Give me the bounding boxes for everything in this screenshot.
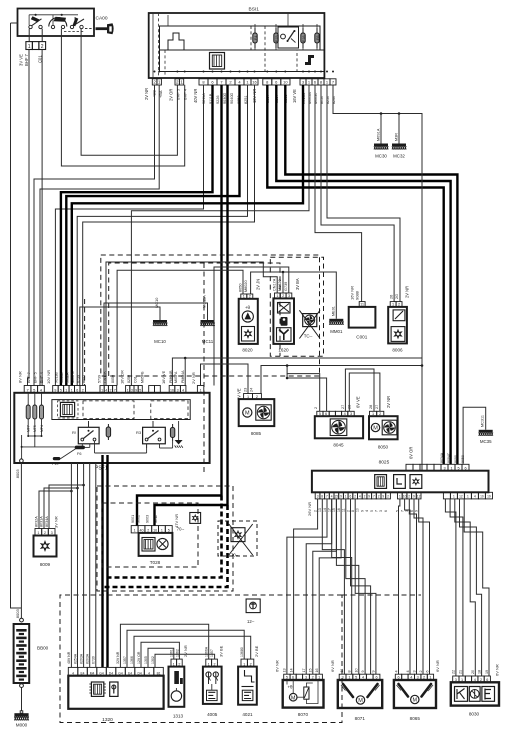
svg-text:8032A: 8032A	[34, 516, 38, 527]
svg-text:4: 4	[474, 495, 476, 499]
svg-text:M: M	[413, 698, 418, 704]
wire BB00 to M000	[21, 688, 23, 711]
component 8071 pins	[339, 674, 380, 680]
component C001	[349, 307, 376, 340]
dashed boundary left segment	[84, 299, 86, 385]
svg-text:F6: F6	[77, 452, 81, 456]
connector C01	[26, 42, 46, 51]
bold wire pair B down middle	[226, 85, 228, 505]
ground MC32	[392, 144, 406, 159]
component 8065 wiper motor rear	[394, 680, 436, 721]
BSI connector pins group4	[263, 79, 290, 85]
ground MM01	[329, 306, 343, 334]
svg-text:2: 2	[378, 495, 380, 499]
svg-text:1: 1	[200, 389, 202, 393]
svg-text:8090: 8090	[454, 455, 458, 463]
component 8085 fan unit	[239, 399, 275, 436]
PSF1 fuse box	[14, 393, 209, 472]
svg-text:1366: 1366	[130, 656, 134, 664]
svg-text:1: 1	[399, 495, 401, 499]
4005 labels	[205, 645, 224, 657]
svg-text:2V NR: 2V NR	[144, 88, 149, 100]
ground MC30	[374, 144, 388, 159]
wire BSI to 8006 pin1	[321, 85, 394, 302]
svg-text:5: 5	[396, 510, 400, 512]
wires 8009 to 1320 bus	[39, 491, 71, 529]
svg-text:19: 19	[487, 495, 491, 499]
T028 pins	[131, 526, 172, 533]
svg-text:17: 17	[302, 668, 306, 672]
svg-text:8045: 8045	[333, 443, 344, 448]
wires 1320 to 1313/4005/4021	[120, 624, 208, 667]
dashed boundary D2	[109, 263, 280, 376]
svg-text:10V NR: 10V NR	[46, 370, 51, 384]
component 8006 sensor	[388, 307, 407, 352]
svg-text:F4: F4	[254, 36, 258, 40]
svg-text:27: 27	[375, 405, 379, 409]
svg-text:2: 2	[41, 44, 44, 50]
svg-text:5: 5	[60, 389, 62, 393]
crossed component 70 small	[177, 513, 201, 532]
PSF1 fuse F6	[75, 446, 85, 457]
8025 top pin labels	[440, 452, 465, 463]
BSI connector strip	[160, 50, 325, 72]
svg-text:15: 15	[309, 668, 313, 672]
BSI pin junction dots	[154, 71, 335, 73]
C001 wire labels	[349, 286, 359, 300]
wires 1620 to PSF1	[106, 262, 277, 386]
svg-text:2: 2	[387, 495, 389, 499]
dashed boundary bottom assembly	[60, 595, 342, 723]
wire 6V OR down to 8025	[421, 358, 423, 471]
svg-text:8031A: 8031A	[40, 516, 44, 527]
PSF1 fuse bus	[27, 435, 42, 447]
svg-text:2: 2	[82, 389, 84, 393]
svg-text:20: 20	[471, 670, 475, 674]
wire PSF1 to 8020 pin1	[117, 270, 243, 385]
BSI fuse F15	[274, 28, 279, 48]
svg-text:3V BA: 3V BA	[295, 278, 300, 290]
svg-text:8: 8	[348, 670, 352, 672]
wire switch to BSI BHF5	[81, 29, 177, 156]
svg-text:16: 16	[337, 508, 341, 512]
svg-text:9001: 9001	[131, 515, 135, 523]
svg-text:6: 6	[410, 510, 414, 512]
wires 8025 to 8071	[322, 499, 344, 674]
wire MC10 to PSF1	[80, 307, 160, 386]
svg-text:48V NR: 48V NR	[67, 651, 71, 664]
svg-text:23: 23	[244, 388, 248, 392]
svg-text:6V NR: 6V NR	[330, 660, 335, 672]
wires 8045-8050 link	[345, 369, 374, 411]
svg-text:4: 4	[182, 389, 184, 393]
PSF1 fuse mid	[107, 424, 109, 440]
svg-text:9: 9	[135, 389, 137, 393]
svg-text:1: 1	[28, 44, 31, 50]
svg-text:9: 9	[360, 510, 364, 512]
wires 8025 to 8070	[294, 499, 318, 674]
dashed box T028	[102, 503, 198, 567]
svg-text:13680: 13680	[240, 647, 244, 657]
ground lead MC32	[398, 114, 400, 144]
svg-text:1: 1	[71, 389, 73, 393]
svg-text:2: 2	[354, 495, 356, 499]
svg-text:+θ: +θ	[245, 305, 251, 310]
svg-text:70--: 70--	[231, 553, 239, 558]
wires 8025 to 8030	[445, 499, 456, 676]
1620 wire labels	[272, 278, 300, 291]
svg-text:26V NR: 26V NR	[307, 502, 312, 516]
svg-text:2V NR: 2V NR	[404, 286, 409, 298]
svg-text:18: 18	[477, 670, 481, 674]
svg-text:F6: F6	[316, 36, 320, 40]
svg-text:1357: 1357	[210, 649, 214, 657]
svg-text:BHF 4: BHF 4	[183, 88, 188, 100]
component 8085 pins	[244, 394, 262, 400]
svg-text:1302: 1302	[151, 656, 155, 664]
wire CA00 to C01 pin1	[28, 29, 30, 42]
svg-text:M05FA: M05FA	[174, 371, 178, 383]
wire 8003 PSF1 to BB00	[20, 463, 22, 619]
dashed boundary around 1620	[270, 257, 323, 356]
svg-text:PMG4A: PMG4A	[181, 370, 185, 383]
svg-text:M1620: M1620	[278, 279, 282, 291]
svg-text:MC11: MC11	[202, 339, 214, 344]
bold dashed wire A	[108, 496, 222, 578]
wire BSI 8052 to PSF1	[77, 85, 247, 386]
svg-text:6: 6	[384, 510, 388, 512]
svg-text:1: 1	[467, 495, 469, 499]
svg-text:C01: C01	[134, 376, 138, 383]
svg-text:70--: 70--	[177, 527, 185, 532]
dashed box T028 outer	[97, 486, 233, 591]
bold wire BSI 9304 to 8025 pin1	[276, 85, 450, 465]
component 8070 pins	[284, 674, 323, 680]
svg-text:6V NR: 6V NR	[274, 660, 279, 672]
svg-text:10: 10	[355, 668, 359, 672]
8050 labels	[369, 396, 391, 409]
8071 wire number labels	[340, 668, 376, 672]
PSF1 fuse MF7	[26, 393, 30, 436]
svg-text:6: 6	[425, 670, 429, 672]
wire to 8045 pin5	[287, 366, 320, 412]
ground M000	[14, 711, 28, 728]
bold wire BSI 9030D to PSF1	[66, 85, 239, 386]
svg-text:1: 1	[453, 495, 455, 499]
svg-text:MC10: MC10	[154, 297, 159, 308]
T028 wire labels	[131, 514, 179, 528]
svg-text:4021: 4021	[242, 712, 253, 717]
component 8070 coolant unit	[283, 680, 324, 717]
svg-text:BHF 4: BHF 4	[40, 372, 44, 383]
svg-text:M05FC: M05FC	[71, 371, 75, 383]
svg-text:M000: M000	[16, 722, 28, 727]
svg-text:1620: 1620	[278, 348, 289, 353]
BSI connector pins group2	[175, 79, 184, 85]
svg-text:3V NR: 3V NR	[54, 516, 59, 528]
svg-text:8003: 8003	[15, 609, 20, 619]
svg-text:8050: 8050	[111, 375, 115, 383]
wire BSI 9008 to C001	[315, 85, 362, 302]
PSF1 relay R1	[72, 421, 99, 448]
svg-text:1357: 1357	[123, 656, 127, 664]
svg-text:28: 28	[369, 405, 373, 409]
component 4021 pins	[241, 659, 254, 667]
BSI internal relay	[278, 27, 299, 48]
component 8045 fan	[315, 416, 363, 447]
svg-text:8065: 8065	[410, 716, 421, 721]
component 8050 pins	[370, 411, 384, 416]
svg-text:8009: 8009	[40, 562, 51, 567]
component 8065 pins	[395, 674, 433, 680]
BSI internal wires	[153, 13, 317, 78]
svg-text:9: 9	[54, 389, 56, 393]
8085 wire labels	[237, 388, 254, 400]
bold wire BSI 9111B to PSF1	[61, 85, 213, 386]
PSF1 top wire labels	[18, 370, 196, 384]
svg-text:16: 16	[315, 668, 319, 672]
svg-text:3V BE: 3V BE	[218, 645, 223, 657]
dashed boundary D2b	[203, 263, 205, 472]
svg-text:9211A: 9211A	[202, 93, 206, 104]
svg-text:4: 4	[394, 670, 398, 672]
svg-text:2: 2	[419, 670, 423, 672]
BSI connector pins group3	[199, 79, 258, 85]
wire 8025 pin6 to MC35	[463, 407, 486, 464]
svg-text:CN17B: CN17B	[103, 371, 107, 383]
wire BSI to PSF1 G4 group	[131, 85, 309, 386]
svg-text:9226: 9226	[216, 96, 220, 104]
PSF1 relay R3	[136, 421, 165, 448]
8020 wire labels	[238, 279, 260, 292]
svg-text:12--: 12--	[247, 619, 255, 624]
svg-text:40V NR: 40V NR	[193, 89, 198, 103]
component 1313 oil pressure switch	[169, 667, 185, 719]
svg-text:8034A: 8034A	[440, 452, 444, 463]
crossed-out component TC	[299, 310, 320, 338]
svg-text:7: 7	[373, 495, 375, 499]
svg-text:15: 15	[335, 495, 339, 499]
PSF1 internal wires	[21, 421, 179, 459]
component 8030 pins	[453, 676, 491, 682]
svg-text:CN17A: CN17A	[272, 278, 276, 291]
PSF1 top pins	[24, 386, 204, 393]
svg-text:BHF 7: BHF 7	[24, 53, 29, 66]
svg-text:15: 15	[332, 508, 336, 512]
bold wire pair A down middle	[220, 85, 222, 496]
component 8045 pins	[317, 411, 354, 416]
1313 labels	[170, 645, 188, 657]
svg-text:8V NR: 8V NR	[18, 371, 23, 383]
svg-text:2V JN: 2V JN	[256, 279, 261, 290]
svg-text:R!: R!	[72, 430, 76, 435]
svg-text:9003: 9003	[145, 515, 149, 523]
svg-text:5739: 5739	[98, 375, 102, 383]
svg-text:+: +	[427, 689, 429, 693]
svg-text:3: 3	[412, 670, 416, 672]
svg-text:G739: G739	[284, 282, 288, 291]
ground MC35	[479, 430, 493, 444]
bold dashed wire B	[103, 505, 228, 587]
PSF1 fuse F19	[52, 457, 60, 466]
svg-text:4: 4	[406, 670, 410, 672]
component 1620 diesel pump	[273, 298, 294, 352]
wire switch to BSI BHF4	[61, 29, 184, 166]
svg-text:9002: 9002	[137, 515, 141, 523]
svg-text:2: 2	[346, 510, 350, 512]
svg-text:4005: 4005	[207, 712, 218, 717]
BSI fuse F6	[315, 28, 320, 48]
svg-text:1: 1	[65, 389, 67, 393]
svg-text:2V BE: 2V BE	[254, 645, 259, 657]
svg-text:8250: 8250	[127, 375, 131, 383]
PSF1 inner connector box	[52, 400, 190, 420]
wire 8085 pin1 to PSF1	[201, 364, 249, 394]
component 12 crossed	[246, 599, 260, 624]
bold wire PSF1 to 1320 B	[106, 455, 108, 667]
wire PSF1 pin16 to 8025 6V OR	[172, 358, 422, 386]
8009 pins	[35, 529, 55, 536]
svg-text:8034A: 8034A	[45, 516, 49, 527]
8065 wire number labels	[394, 670, 429, 672]
svg-text:9013A: 9013A	[60, 372, 64, 383]
svg-text:8084C: 8084C	[447, 452, 451, 463]
svg-text:BHF 7: BHF 7	[27, 372, 31, 383]
svg-text:+: +	[402, 689, 404, 693]
svg-text:8003: 8003	[15, 469, 20, 479]
svg-text:1313: 1313	[173, 714, 184, 719]
svg-text:3: 3	[317, 495, 319, 499]
svg-text:M: M	[373, 426, 378, 432]
wire BSI 40V NR to PSF1	[55, 85, 203, 386]
svg-text:19: 19	[485, 670, 489, 674]
bold wire pair A into T028	[137, 496, 222, 526]
svg-text:MC311: MC311	[481, 415, 485, 427]
svg-text:2: 2	[364, 495, 366, 499]
svg-text:16: 16	[252, 80, 257, 85]
component 1320 engine ECU	[68, 676, 163, 723]
BSI connector pins group1	[152, 79, 161, 85]
svg-text:2: 2	[313, 510, 317, 512]
PSF1 fuse MF5	[33, 393, 37, 436]
battery terminal top	[20, 618, 24, 622]
wire 1620 pin2 tap	[282, 271, 285, 274]
component 8030 unit	[451, 682, 499, 716]
junction MC30	[380, 112, 383, 115]
svg-text:ME01: ME01	[332, 306, 336, 316]
ground lead MC30	[380, 114, 382, 144]
svg-text:4: 4	[105, 389, 107, 393]
svg-text:9012A: 9012A	[65, 372, 69, 383]
svg-text:7: 7	[374, 510, 378, 512]
svg-text:5: 5	[139, 389, 141, 393]
wire MC11 to PSF1	[104, 303, 208, 386]
svg-text:8071: 8071	[355, 716, 366, 721]
wire 8020 pin2 to MM01	[251, 272, 337, 319]
svg-text:8203A: 8203A	[86, 653, 90, 664]
svg-text:3V VE: 3V VE	[18, 54, 23, 66]
svg-text:8025: 8025	[379, 460, 390, 466]
svg-text:R3: R3	[136, 430, 142, 435]
svg-text:1: 1	[127, 389, 129, 393]
svg-text:1: 1	[101, 389, 103, 393]
svg-text:22: 22	[452, 670, 456, 674]
component 1313 pins	[171, 659, 182, 667]
junction MC32	[398, 112, 401, 115]
svg-text:8: 8	[351, 510, 355, 512]
svg-text:7: 7	[326, 495, 328, 499]
svg-text:9040D: 9040D	[230, 93, 234, 104]
svg-text:3: 3	[405, 510, 409, 512]
wire BSI 8251 to PSF1	[83, 85, 255, 386]
svg-text:27: 27	[341, 405, 345, 409]
4021 labels	[240, 645, 259, 657]
svg-text:8050: 8050	[238, 284, 242, 292]
bold wire BSI 9305 to 8025 pin5	[285, 85, 457, 465]
svg-text:MC11A: MC11A	[202, 295, 207, 308]
8025 bottom pins mid	[398, 492, 422, 499]
component 8020 pins	[241, 294, 253, 299]
svg-text:2: 2	[314, 407, 318, 409]
svg-text:16: 16	[170, 389, 174, 393]
component 8050 fan unit	[369, 416, 398, 449]
svg-text:8050: 8050	[461, 455, 465, 463]
svg-text:1305: 1305	[144, 656, 148, 664]
svg-text:12: 12	[417, 495, 421, 499]
svg-text:1361: 1361	[170, 649, 174, 657]
svg-text:M05FB: M05FB	[140, 371, 144, 383]
component 1320 pins	[68, 667, 163, 675]
svg-text:6739: 6739	[92, 656, 96, 664]
svg-text:1320: 1320	[102, 717, 113, 723]
svg-text:F19: F19	[52, 462, 59, 466]
svg-text:6: 6	[76, 389, 78, 393]
svg-text:8254A: 8254A	[73, 653, 77, 664]
svg-text:9: 9	[340, 495, 342, 499]
svg-text:7: 7	[114, 389, 116, 393]
svg-text:MF5: MF5	[33, 425, 37, 432]
8030 wire number labels	[452, 670, 489, 674]
svg-text:3: 3	[379, 510, 383, 512]
component 8025 top pins	[406, 464, 469, 470]
svg-text:TC--: TC--	[304, 333, 313, 338]
svg-text:13: 13	[283, 668, 287, 672]
dashed box 70	[218, 521, 257, 556]
svg-text:12V OR: 12V OR	[137, 651, 141, 664]
wire C01-1 down to PSF1 (BHF7)	[28, 50, 30, 386]
svg-text:17: 17	[327, 508, 331, 512]
svg-text:6V OR: 6V OR	[409, 447, 414, 459]
PSF1 internal ground	[175, 437, 183, 448]
svg-text:4: 4	[365, 510, 369, 512]
svg-text:BSI1: BSI1	[249, 7, 260, 13]
wire long run to 8085 pin2	[261, 366, 422, 394]
ground MC10	[153, 297, 167, 344]
svg-text:9: 9	[414, 510, 418, 512]
svg-text:F16: F16	[302, 35, 306, 42]
svg-text:11: 11	[342, 508, 346, 512]
wire CA00 pin to C01 pin2	[41, 29, 43, 42]
component 8006 pins	[390, 302, 402, 307]
bold wire pair B into T028	[155, 505, 228, 526]
svg-text:6: 6	[350, 495, 352, 499]
svg-text:2V OR: 2V OR	[168, 89, 173, 101]
svg-text:10: 10	[283, 80, 288, 85]
8070 wire number labels	[283, 668, 319, 672]
svg-text:14: 14	[289, 668, 293, 672]
svg-text:BHF 5: BHF 5	[34, 372, 38, 383]
svg-text:MC30: MC30	[375, 154, 387, 159]
